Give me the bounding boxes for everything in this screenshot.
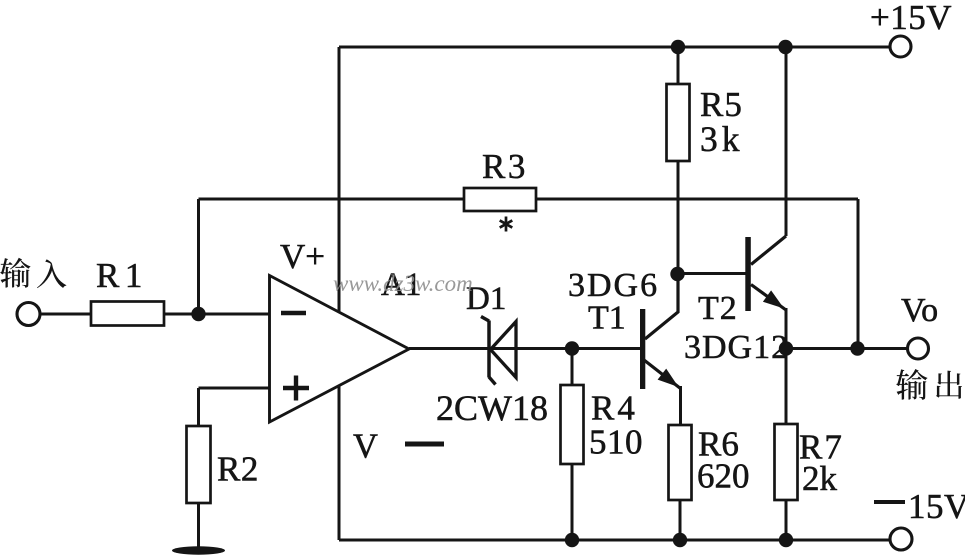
svg-text:R1: R1 bbox=[96, 256, 148, 295]
svg-text:R2: R2 bbox=[217, 450, 259, 489]
svg-text:2k: 2k bbox=[802, 459, 838, 498]
svg-text:2CW18: 2CW18 bbox=[436, 388, 548, 428]
svg-text:15V: 15V bbox=[908, 487, 965, 526]
svg-text:+15V: +15V bbox=[870, 0, 952, 37]
svg-text:V: V bbox=[353, 428, 378, 466]
svg-text:V+: V+ bbox=[280, 237, 325, 276]
svg-text:3DG12: 3DG12 bbox=[684, 329, 789, 366]
svg-text:www.dz3w.com: www.dz3w.com bbox=[333, 271, 473, 296]
svg-text:620: 620 bbox=[697, 457, 750, 496]
svg-text:R3: R3 bbox=[482, 147, 528, 186]
svg-text:Vo: Vo bbox=[901, 292, 938, 329]
svg-text:510: 510 bbox=[589, 423, 643, 462]
svg-text:3DG6: 3DG6 bbox=[568, 267, 659, 304]
svg-text:T2: T2 bbox=[698, 290, 738, 327]
svg-text:T1: T1 bbox=[588, 300, 626, 337]
svg-text:3k: 3k bbox=[700, 119, 744, 159]
